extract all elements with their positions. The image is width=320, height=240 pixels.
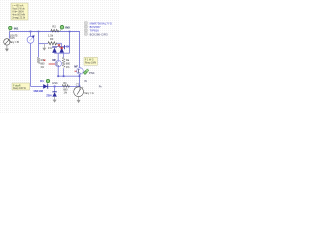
resistor R3 [44,37,57,50]
diode D2 [52,47,57,53]
resistor R4 (vertical) [37,57,45,69]
junction node H (79.5,86.4) [79,86,81,88]
svg-text:R3: R3 [50,37,54,41]
junction node G (54.6,86.4) [54,86,56,88]
transistor T1 [55,61,61,67]
svg-text:2mag) 22.3k: 2mag) 22.3k [12,18,26,20]
wire T1 collector [57,53,59,61]
note N2 (yellow comment box, bottom-left) [12,83,30,90]
unconnected pin mark R4 (red) [44,59,46,61]
note N3 (yellow comment box, mid-right) [84,57,97,65]
wire branch x=38.5 [38,32,40,58]
svg-text:R2: R2 [52,24,56,28]
current source I1 (blue circle) [27,32,34,44]
svg-text:IN1: IN1 [14,26,19,30]
wire T2 emitter down [79,74,81,86]
wire vertical x=69.5 [69,32,71,54]
svg-text:1N4148: 1N4148 [33,89,43,93]
node flag HSb (green pin above D1) [46,79,49,84]
node flag OUT (green pin at T2) [83,69,89,75]
svg-text:0.Pr: 0.Pr [10,37,15,40]
svg-text:PN4: PN4 [89,71,95,75]
junction node A (30.5,31.5) [30,31,32,33]
svg-text:TIP816: TIP816 [90,29,100,33]
zener diode ZD4 [52,86,56,96]
svg-text:NF: NF [52,58,56,62]
svg-text:D1: D1 [40,79,44,83]
netlist line L1 [85,22,112,26]
netlist line L2 [85,25,102,29]
svg-text:F 1 W G: F 1 W G [85,60,94,62]
svg-text:IN: IN [84,79,87,83]
netlist line L4 [85,32,108,36]
svg-text:Vary = A: Vary = A [84,92,94,95]
unconnected base stub T2 (red) [75,70,77,72]
svg-text:ZD4: ZD4 [46,94,52,98]
ground G3 (gray arrow under ZD4) [53,97,57,103]
resistor R2 [48,24,59,37]
svg-text:NWR73K9AL7YG: NWR73K9AL7YG [90,22,112,26]
unconnected base stub T1 (red) [49,63,56,65]
svg-text:IN5: IN5 [65,26,70,30]
wire emitter T1 down [57,67,59,77]
diode D1 (on bottom rail) [43,84,48,89]
svg-text:F akaR: F akaR [13,85,21,87]
wire emitter rail y=76.2 [58,75,79,77]
junction node E (63.6,76.2) [63,75,65,77]
netlist line L3 [85,29,100,33]
wire T2 collector from top rail [79,32,81,69]
node flag IN1 (green pin, top-left) [9,26,12,31]
junction node D (58.2,76.2) [57,75,59,77]
ground G2 (gray arrow) [42,44,46,51]
transistor T2 [77,68,84,75]
resistor Rb (on bottom rail) [62,82,69,94]
wire bottom rail [31,85,80,87]
capacitor C6 stub [63,45,65,49]
wire diode top node [57,42,62,44]
svg-text:BCK286-CIR3: BCK286-CIR3 [90,32,108,36]
junction node B (38.5,31.5) [38,31,40,33]
note N1 (yellow comment box, top-left) [11,3,28,20]
node flag IN5 (green pin on top rail) [60,25,64,31]
wire top rail [10,31,81,33]
wire node row y=46.6 [53,46,70,48]
diode D3 [59,47,64,53]
unconnected pin marks (red) [58,44,63,49]
label VG1 value lines [9,34,19,44]
ground under VG1 [5,45,9,52]
svg-text:4ms W2 k4h: 4ms W2 k4h [12,15,25,17]
ground G4 (gray arrow under CT) [77,97,81,104]
svg-text:BOV6R7: BOV6R7 [90,25,102,29]
wire collector row y=53.2 [54,52,69,54]
svg-text:Vout 5 W ok: Vout 5 W ok [12,8,25,11]
resistor Ra (vertical) [62,53,70,76]
svg-text:NF: NF [74,64,78,68]
current source CT [74,86,84,96]
junction node C (69.5,31.5) [69,31,71,33]
svg-text:Resp 1WN: Resp 1WN [85,63,96,65]
svg-text:If Ib= 300H: If Ib= 300H [12,12,24,14]
voltage source VG1 [4,32,12,46]
svg-text:Resp 100.W: Resp 100.W [13,88,26,90]
svg-text:680: 680 [40,62,45,65]
svg-text:Vary = B: Vary = B [9,41,19,44]
svg-text:CT: CT [76,83,80,86]
svg-text:1.5k: 1.5k [48,33,54,37]
svg-text:t = 400 mA: t = 400 mA [12,5,24,8]
wire stub to ground G2 [39,43,45,45]
svg-text:HSb: HSb [52,81,58,85]
junction node F (79.5,76.2) [79,75,81,77]
wire I1 down rail [30,43,32,86]
